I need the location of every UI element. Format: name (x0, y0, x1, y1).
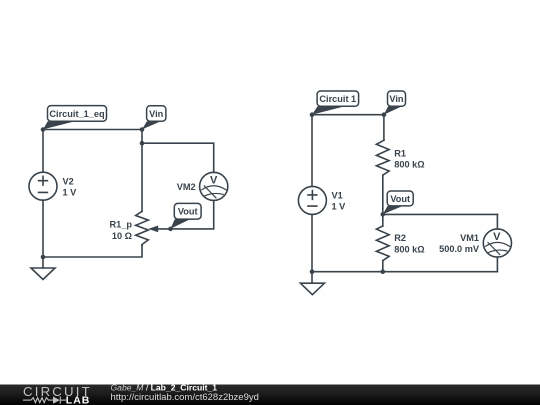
svg-text:Circuit 1: Circuit 1 (319, 94, 356, 104)
svg-text:V1: V1 (332, 190, 343, 200)
svg-text:1 V: 1 V (332, 202, 347, 212)
svg-text:10 Ω: 10 Ω (112, 231, 132, 241)
svg-text:500.0 mV: 500.0 mV (439, 244, 480, 254)
svg-text:http://circuitlab.com/ct628z2b: http://circuitlab.com/ct628z2bze9yd (111, 392, 259, 403)
svg-text:Vin: Vin (149, 109, 164, 119)
svg-text:1 V: 1 V (63, 188, 78, 198)
svg-text:LAB: LAB (66, 395, 91, 405)
svg-text:Vout: Vout (390, 194, 410, 204)
svg-text:R1: R1 (394, 148, 406, 158)
svg-text:800 kΩ: 800 kΩ (394, 244, 424, 254)
svg-text:R1_p: R1_p (110, 220, 133, 230)
svg-text:Vout: Vout (178, 207, 198, 217)
svg-text:V: V (493, 231, 501, 243)
svg-text:VM1: VM1 (460, 233, 479, 243)
svg-text:R2: R2 (394, 233, 406, 243)
svg-text:VM2: VM2 (177, 182, 196, 192)
svg-text:800 kΩ: 800 kΩ (394, 160, 424, 170)
svg-text:Circuit_1_eq: Circuit_1_eq (49, 109, 104, 119)
svg-text:Vin: Vin (389, 94, 404, 104)
svg-text:V: V (210, 174, 218, 186)
svg-text:V2: V2 (63, 176, 74, 186)
